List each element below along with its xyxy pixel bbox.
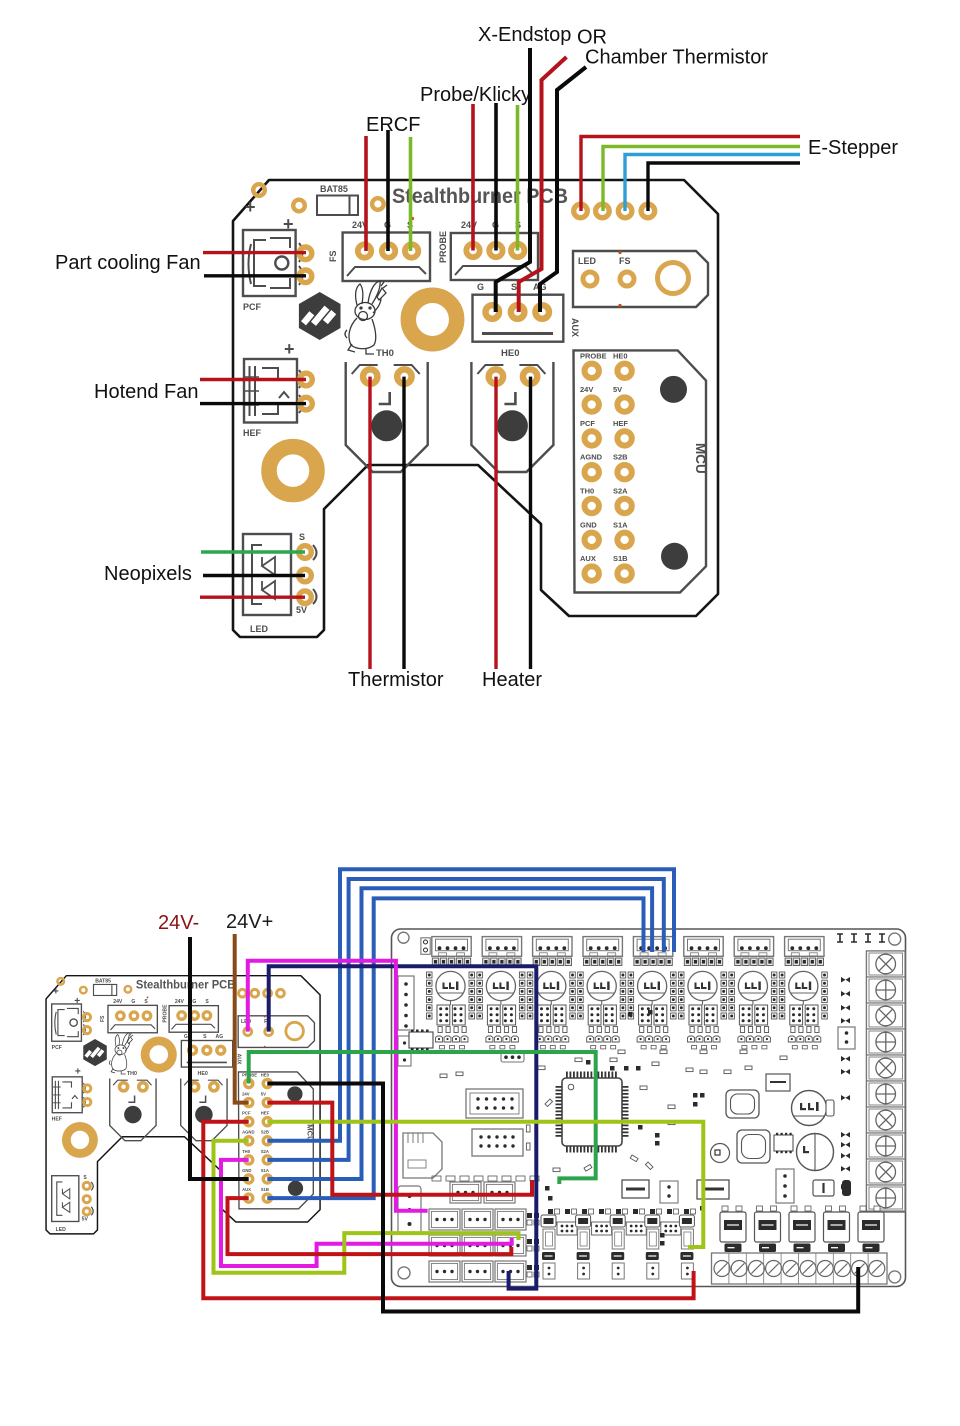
- VFB unit row (left heater group): [541, 1215, 556, 1279]
- wire S2A blue loop: [267, 879, 664, 1160]
- MOSFET blocks row (right): [720, 1206, 746, 1252]
- power inductor circles: [792, 1091, 827, 1126]
- svg-text:X-Endstop: X-Endstop: [478, 24, 571, 46]
- stepper connector 3: [533, 937, 572, 957]
- scattered passives mid-board: [545, 1099, 552, 1106]
- left 3-pin header 2: [398, 1036, 411, 1066]
- svg-text:E-Stepper: E-Stepper: [808, 137, 898, 159]
- wire ERCF S green: [409, 137, 413, 251]
- wire ERCF 24V red: [364, 136, 368, 251]
- IDC header 2: [472, 1129, 523, 1156]
- EMI filter squares: [726, 1090, 759, 1118]
- svg-text:OR: OR: [577, 27, 607, 49]
- svg-text:Neopixels: Neopixels: [104, 563, 192, 585]
- wire X-endstop black to AUX G: [496, 48, 530, 312]
- stepper connector 6: [684, 937, 723, 957]
- Stealthburner PCB (bottom, small): [46, 976, 320, 1234]
- bottom connector grid: [450, 1182, 481, 1203]
- svg-text:Heater: Heater: [482, 669, 542, 691]
- wire 24V+ brown: [235, 934, 249, 1103]
- 3-dot header mid: [501, 1053, 524, 1063]
- bottom-left vertical connector: [398, 1186, 421, 1234]
- stepper connector 2: [482, 937, 521, 957]
- wire hotend fan black: [200, 402, 306, 405]
- mounting holes: [398, 932, 409, 943]
- stepper connector 7: [734, 937, 773, 957]
- SOIC8 right: [774, 1135, 793, 1151]
- wire heater black: [529, 377, 532, 669]
- wire PROBE green: [249, 1052, 596, 1184]
- Stealthburner PCB (top, large): [233, 180, 718, 637]
- wire part cooling fan black: [204, 274, 306, 277]
- wire neopixel 5V red: [200, 596, 305, 599]
- MCU chip LQFP: [562, 1078, 622, 1146]
- wire TH0 magenta: [221, 1160, 512, 1266]
- driver column 3: [527, 958, 575, 1049]
- wire E-stepper blue: [625, 155, 800, 212]
- wire Probe 24V red: [471, 104, 475, 251]
- Octopus mainboard outline: [392, 929, 906, 1287]
- wire AUX red: [228, 1198, 512, 1254]
- wire X-endstop red to AUX S: [519, 57, 567, 312]
- svg-text:ERCF: ERCF: [366, 114, 420, 136]
- wire E-stepper green: [603, 147, 800, 212]
- bowtie diode column: [841, 977, 850, 983]
- svg-text:Chamber Thermistor: Chamber Thermistor: [585, 47, 768, 69]
- top I-beam fiducials: [837, 934, 843, 942]
- wire thermistor black: [402, 377, 405, 669]
- wire S1B blue loop: [267, 898, 643, 1198]
- driver column 4: [578, 958, 626, 1049]
- wire neopixel GND black: [203, 574, 305, 577]
- small can cap: [711, 1144, 730, 1163]
- svg-text:Thermistor: Thermistor: [348, 669, 444, 691]
- wire FS navy: [269, 966, 537, 1288]
- wire chamber thermistor black to AUX AG: [540, 67, 586, 312]
- 2-pin vertical connector right: [838, 1027, 855, 1049]
- small header clusters above bottom rows: [432, 1176, 441, 1181]
- driver column 2: [477, 958, 525, 1049]
- driver column 8: [779, 958, 827, 1049]
- 2-pin box left of connector 1: [421, 938, 430, 955]
- microSD slot: [403, 1133, 442, 1178]
- EEPROM chip: [766, 1074, 790, 1091]
- stepper connector 5: [633, 937, 672, 957]
- dark chips bottom area: [622, 1180, 649, 1198]
- svg-text:Part cooling Fan: Part cooling Fan: [55, 252, 201, 274]
- wire Probe S green: [516, 105, 520, 251]
- svg-text:24V+: 24V+: [226, 911, 273, 933]
- 3-pin vertical connector bottom right: [776, 1169, 794, 1203]
- IDC header 1: [466, 1089, 523, 1118]
- screw terminal column: [867, 951, 906, 1212]
- wire part cooling fan red: [203, 251, 306, 254]
- left 5-pin header: [398, 976, 414, 1030]
- wire S2B blue loop: [267, 869, 674, 1141]
- wire AGND olive: [214, 1141, 519, 1273]
- wire LED magenta: [248, 961, 428, 1211]
- wire S1A blue loop: [267, 888, 652, 1179]
- svg-text:24V-: 24V-: [158, 912, 199, 934]
- wire hotend fan red: [200, 378, 306, 381]
- bottom screw strip: [712, 1253, 888, 1284]
- wire neopixel S green: [201, 550, 305, 553]
- wire thermistor red: [368, 377, 371, 669]
- wire E-stepper black: [648, 163, 800, 211]
- stepper connector 1: [432, 937, 471, 957]
- wire Probe G black: [494, 103, 498, 251]
- driver column 6: [679, 958, 727, 1049]
- wire 5V red: [267, 1103, 532, 1195]
- wire heater red: [494, 377, 497, 669]
- wire ERCF G black: [386, 130, 390, 251]
- wire E-stepper red: [581, 137, 800, 212]
- left SOIC8: [409, 1032, 433, 1048]
- wire HEF olive: [267, 1122, 703, 1247]
- polyfuse dark: [842, 1180, 851, 1196]
- driver column 7: [729, 958, 777, 1049]
- driver column 5: [628, 958, 676, 1049]
- stepper connector 4: [583, 937, 622, 957]
- svg-text:Hotend Fan: Hotend Fan: [94, 381, 199, 403]
- svg-text:Probe/Klicky: Probe/Klicky: [420, 84, 531, 106]
- driver column 1: [427, 958, 475, 1049]
- stepper connector 8: [785, 937, 824, 957]
- fuse box: [813, 1180, 834, 1196]
- wire 24V- black: [190, 937, 249, 1179]
- wire PCF red: [203, 1122, 693, 1299]
- wire HE0 black: [267, 1084, 858, 1312]
